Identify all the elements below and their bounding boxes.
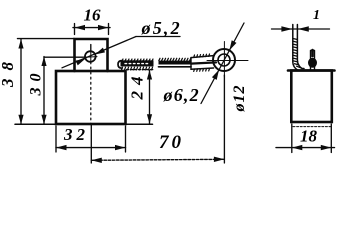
- horizontal centerline of hole / 30-dim extension: [44, 56, 85, 58]
- ø12 extension tick: [223, 75, 225, 76]
- leader ø5,2 arrows at hole: [76, 59, 86, 66]
- svg-text:ø12: ø12: [231, 85, 248, 113]
- hole circle (ø5,2) in block: [85, 51, 96, 62]
- ring terminal hole (ø6,2): [218, 54, 230, 66]
- ring center extension to 70-dim: [223, 76, 225, 163]
- centerline extension to 70-dim: [90, 124, 92, 163]
- svg-text:16: 16: [84, 5, 102, 24]
- svg-text:30: 30: [28, 68, 45, 97]
- dim 32 extension lines: [56, 126, 126, 152]
- ring horizontal centerline: [207, 60, 248, 62]
- terminal crimp tongue: [191, 54, 216, 71]
- dim 24 top extension: [127, 69, 154, 71]
- right view terminal edge-on pin: [311, 51, 315, 71]
- svg-text:ø6,2: ø6,2: [163, 85, 200, 105]
- right view bottom thin line: [293, 126, 332, 128]
- leader ø6,2 arrows at ring: [212, 70, 219, 80]
- ring vertical centerline: [223, 42, 225, 77]
- svg-text:ø5,2: ø5,2: [141, 18, 182, 38]
- right view body: [291, 71, 332, 123]
- dim 70 line with arrows: [91, 159, 224, 160]
- dim 24 line with arrows: [149, 70, 151, 124]
- dim 30 line with arrows: [43, 57, 45, 125]
- svg-text:32: 32: [63, 125, 89, 144]
- dim 18 extension lines: [292, 124, 332, 153]
- brush body front view: [56, 71, 126, 124]
- leader ø6,2 line: [201, 23, 244, 104]
- dim 18 line with arrows: [276, 147, 335, 149]
- hole center dot: [89, 56, 91, 58]
- svg-text:38: 38: [0, 54, 17, 88]
- dim 38 extension line (top): [18, 38, 75, 40]
- leader ø5,2 shelf: [136, 36, 180, 38]
- braid segment 2: [159, 58, 192, 67]
- svg-text:18: 18: [300, 127, 318, 146]
- dim 1 line with arrows: [272, 28, 330, 30]
- svg-text:1: 1: [313, 8, 320, 23]
- dim 38 line with arrows: [20, 39, 22, 124]
- right view wire braid hatch: [293, 39, 301, 68]
- vertical centerline of hole (dashed): [90, 45, 92, 53]
- ring terminal outer circle (ø12): [213, 49, 235, 71]
- braid segment 1: [118, 59, 154, 70]
- brush top block front view: [75, 39, 108, 71]
- svg-text:24: 24: [128, 71, 147, 101]
- svg-text:70: 70: [159, 132, 184, 153]
- dim 16 line with arrows: [73, 27, 110, 29]
- right view wire verticals: [293, 25, 301, 71]
- body bottom edge with extensions: [15, 123, 56, 125]
- dim 32 line with arrows: [56, 147, 126, 149]
- leader ø5,2 line: [62, 37, 136, 68]
- dim 16 extension lines: [75, 24, 109, 35]
